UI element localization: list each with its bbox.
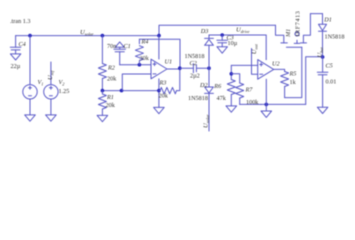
wire V2 bottom bbox=[50, 99, 52, 115]
svg-text:C1: C1 bbox=[124, 43, 131, 50]
wire bottom rail bbox=[240, 103, 306, 105]
op-amp U2 bbox=[258, 60, 274, 80]
svg-text:1N5818: 1N5818 bbox=[185, 53, 205, 60]
wire pump node vertical bbox=[208, 45, 210, 87]
wire U2 Vplus pin bbox=[265, 58, 267, 60]
ground C5 bbox=[317, 107, 328, 113]
svg-text:R1: R1 bbox=[106, 94, 114, 101]
wire U2 output bbox=[274, 68, 285, 70]
wire R4 feedback to output bbox=[139, 39, 180, 68]
svg-text:IRF7413: IRF7413 bbox=[295, 11, 302, 37]
svg-text:U2: U2 bbox=[272, 61, 280, 68]
svg-text:2µ2: 2µ2 bbox=[190, 73, 200, 80]
ground bottom rail bbox=[261, 104, 272, 117]
svg-text:1N5818: 1N5818 bbox=[188, 95, 208, 102]
wire U1 inverting input bbox=[122, 74, 151, 91]
node V1 junction bbox=[28, 34, 32, 38]
svg-text:R7: R7 bbox=[245, 87, 254, 94]
node C2 pump junction bbox=[207, 66, 211, 70]
ground C3 bbox=[217, 47, 228, 54]
svg-text:1k: 1k bbox=[290, 79, 297, 86]
svg-text:30k: 30k bbox=[140, 55, 150, 62]
svg-text:Usolar: Usolar bbox=[203, 114, 211, 128]
voltage source V1 bbox=[23, 85, 37, 99]
diode D2 bbox=[205, 87, 214, 131]
svg-text:R4: R4 bbox=[141, 39, 149, 46]
ground C4 bbox=[10, 54, 20, 60]
wire R7 branch bbox=[231, 74, 239, 83]
resistor R5 bbox=[281, 69, 289, 97]
svg-text:C2: C2 bbox=[190, 60, 197, 67]
svg-text:Udrive: Udrive bbox=[236, 27, 250, 35]
wire U1 non-inverting input bbox=[120, 64, 151, 66]
ground R6 bbox=[226, 106, 237, 112]
diode D3 bbox=[205, 35, 214, 45]
svg-text:C5: C5 bbox=[326, 63, 333, 70]
ground R1 bbox=[97, 115, 108, 121]
wire U_out stub bbox=[252, 49, 258, 75]
wire V2 top stub (net U_ref) bbox=[50, 62, 52, 85]
resistor R7 bbox=[236, 83, 244, 104]
svg-text:D2: D2 bbox=[199, 82, 208, 89]
svg-text:47k: 47k bbox=[217, 95, 227, 102]
resistor R2 bbox=[98, 36, 106, 91]
svg-text:M1: M1 bbox=[285, 29, 292, 38]
svg-text:V1: V1 bbox=[38, 79, 44, 87]
svg-text:0.01: 0.01 bbox=[326, 79, 337, 86]
svg-text:100k: 100k bbox=[246, 99, 259, 106]
svg-text:R3: R3 bbox=[159, 80, 167, 87]
node R1 R2 junction bbox=[101, 89, 105, 93]
wire gate link bbox=[285, 47, 302, 97]
svg-text:C4: C4 bbox=[19, 41, 26, 48]
node R4 bottom junction bbox=[138, 63, 142, 67]
svg-text:D3: D3 bbox=[200, 28, 209, 35]
wire drain top bbox=[310, 13, 322, 15]
ground V2 bbox=[46, 115, 57, 121]
resistor R4 bbox=[135, 39, 143, 64]
svg-text:70n: 70n bbox=[107, 43, 116, 50]
capacitor C1 bbox=[114, 47, 126, 64]
wire U1 output bbox=[167, 68, 180, 70]
svg-text:20k: 20k bbox=[159, 93, 169, 100]
svg-text:Usolar: Usolar bbox=[80, 29, 94, 37]
node R6 R7 junction bbox=[230, 72, 234, 76]
wire V1 bottom bbox=[29, 99, 31, 115]
capacitor C2 bbox=[180, 64, 209, 73]
ground U1 bbox=[154, 107, 165, 113]
svg-text:Ubat: Ubat bbox=[317, 46, 325, 57]
svg-text:Uref: Uref bbox=[47, 70, 55, 80]
svg-text:V2: V2 bbox=[59, 79, 66, 87]
capacitor C3 bbox=[217, 35, 228, 47]
node U1 output junction bbox=[178, 66, 182, 70]
node bottom rail junction bbox=[265, 103, 269, 107]
wire U_solar rail bbox=[16, 35, 159, 37]
wire U2 Vminus pin bbox=[265, 79, 267, 104]
flag C1 top bbox=[115, 42, 124, 47]
wire divider node bbox=[102, 90, 158, 92]
node R3 junction bbox=[157, 89, 161, 93]
node C3 junction bbox=[220, 33, 224, 37]
resistor R3 bbox=[159, 68, 180, 94]
capacitor C4 bbox=[10, 36, 21, 54]
node U1 supply junction bbox=[157, 34, 161, 38]
svg-text:22µ: 22µ bbox=[11, 63, 21, 70]
svg-text:D1: D1 bbox=[323, 17, 332, 24]
node U_bat junction bbox=[321, 55, 325, 59]
svg-text:R5: R5 bbox=[289, 71, 297, 78]
op-amp U1 bbox=[151, 59, 167, 79]
svg-text:10µ: 10µ bbox=[228, 40, 238, 47]
voltage source V2 bbox=[44, 85, 58, 99]
node divider tap junction bbox=[120, 89, 124, 93]
diode D1 bbox=[319, 14, 327, 57]
wire U_bat branch bbox=[306, 57, 323, 105]
svg-text:.tran 1.3: .tran 1.3 bbox=[10, 18, 30, 25]
wire V1 riser bbox=[29, 36, 31, 85]
resistor R1 bbox=[98, 91, 106, 116]
wire U_drive rail bbox=[209, 35, 266, 59]
svg-text:1N5818: 1N5818 bbox=[325, 34, 345, 41]
wire U_solar top jog bbox=[159, 25, 276, 35]
wire U2 non-inverting input bbox=[231, 64, 257, 66]
svg-text:R6: R6 bbox=[213, 83, 222, 90]
svg-text:20k: 20k bbox=[107, 76, 117, 83]
svg-text:1.25: 1.25 bbox=[59, 88, 70, 95]
wire U1 Vminus pin bbox=[158, 79, 160, 108]
mosfet M1 bbox=[276, 14, 311, 48]
node R2 junction bbox=[101, 34, 105, 38]
capacitor C5 bbox=[317, 57, 328, 107]
svg-text:20k: 20k bbox=[106, 102, 116, 109]
ground V1 bbox=[25, 115, 36, 121]
wire U1 Vplus pin bbox=[158, 36, 160, 59]
resistor R6 bbox=[227, 80, 235, 106]
svg-text:R2: R2 bbox=[107, 65, 115, 72]
wire R6 R7 node bbox=[230, 65, 232, 79]
svg-text:U1: U1 bbox=[165, 59, 173, 66]
